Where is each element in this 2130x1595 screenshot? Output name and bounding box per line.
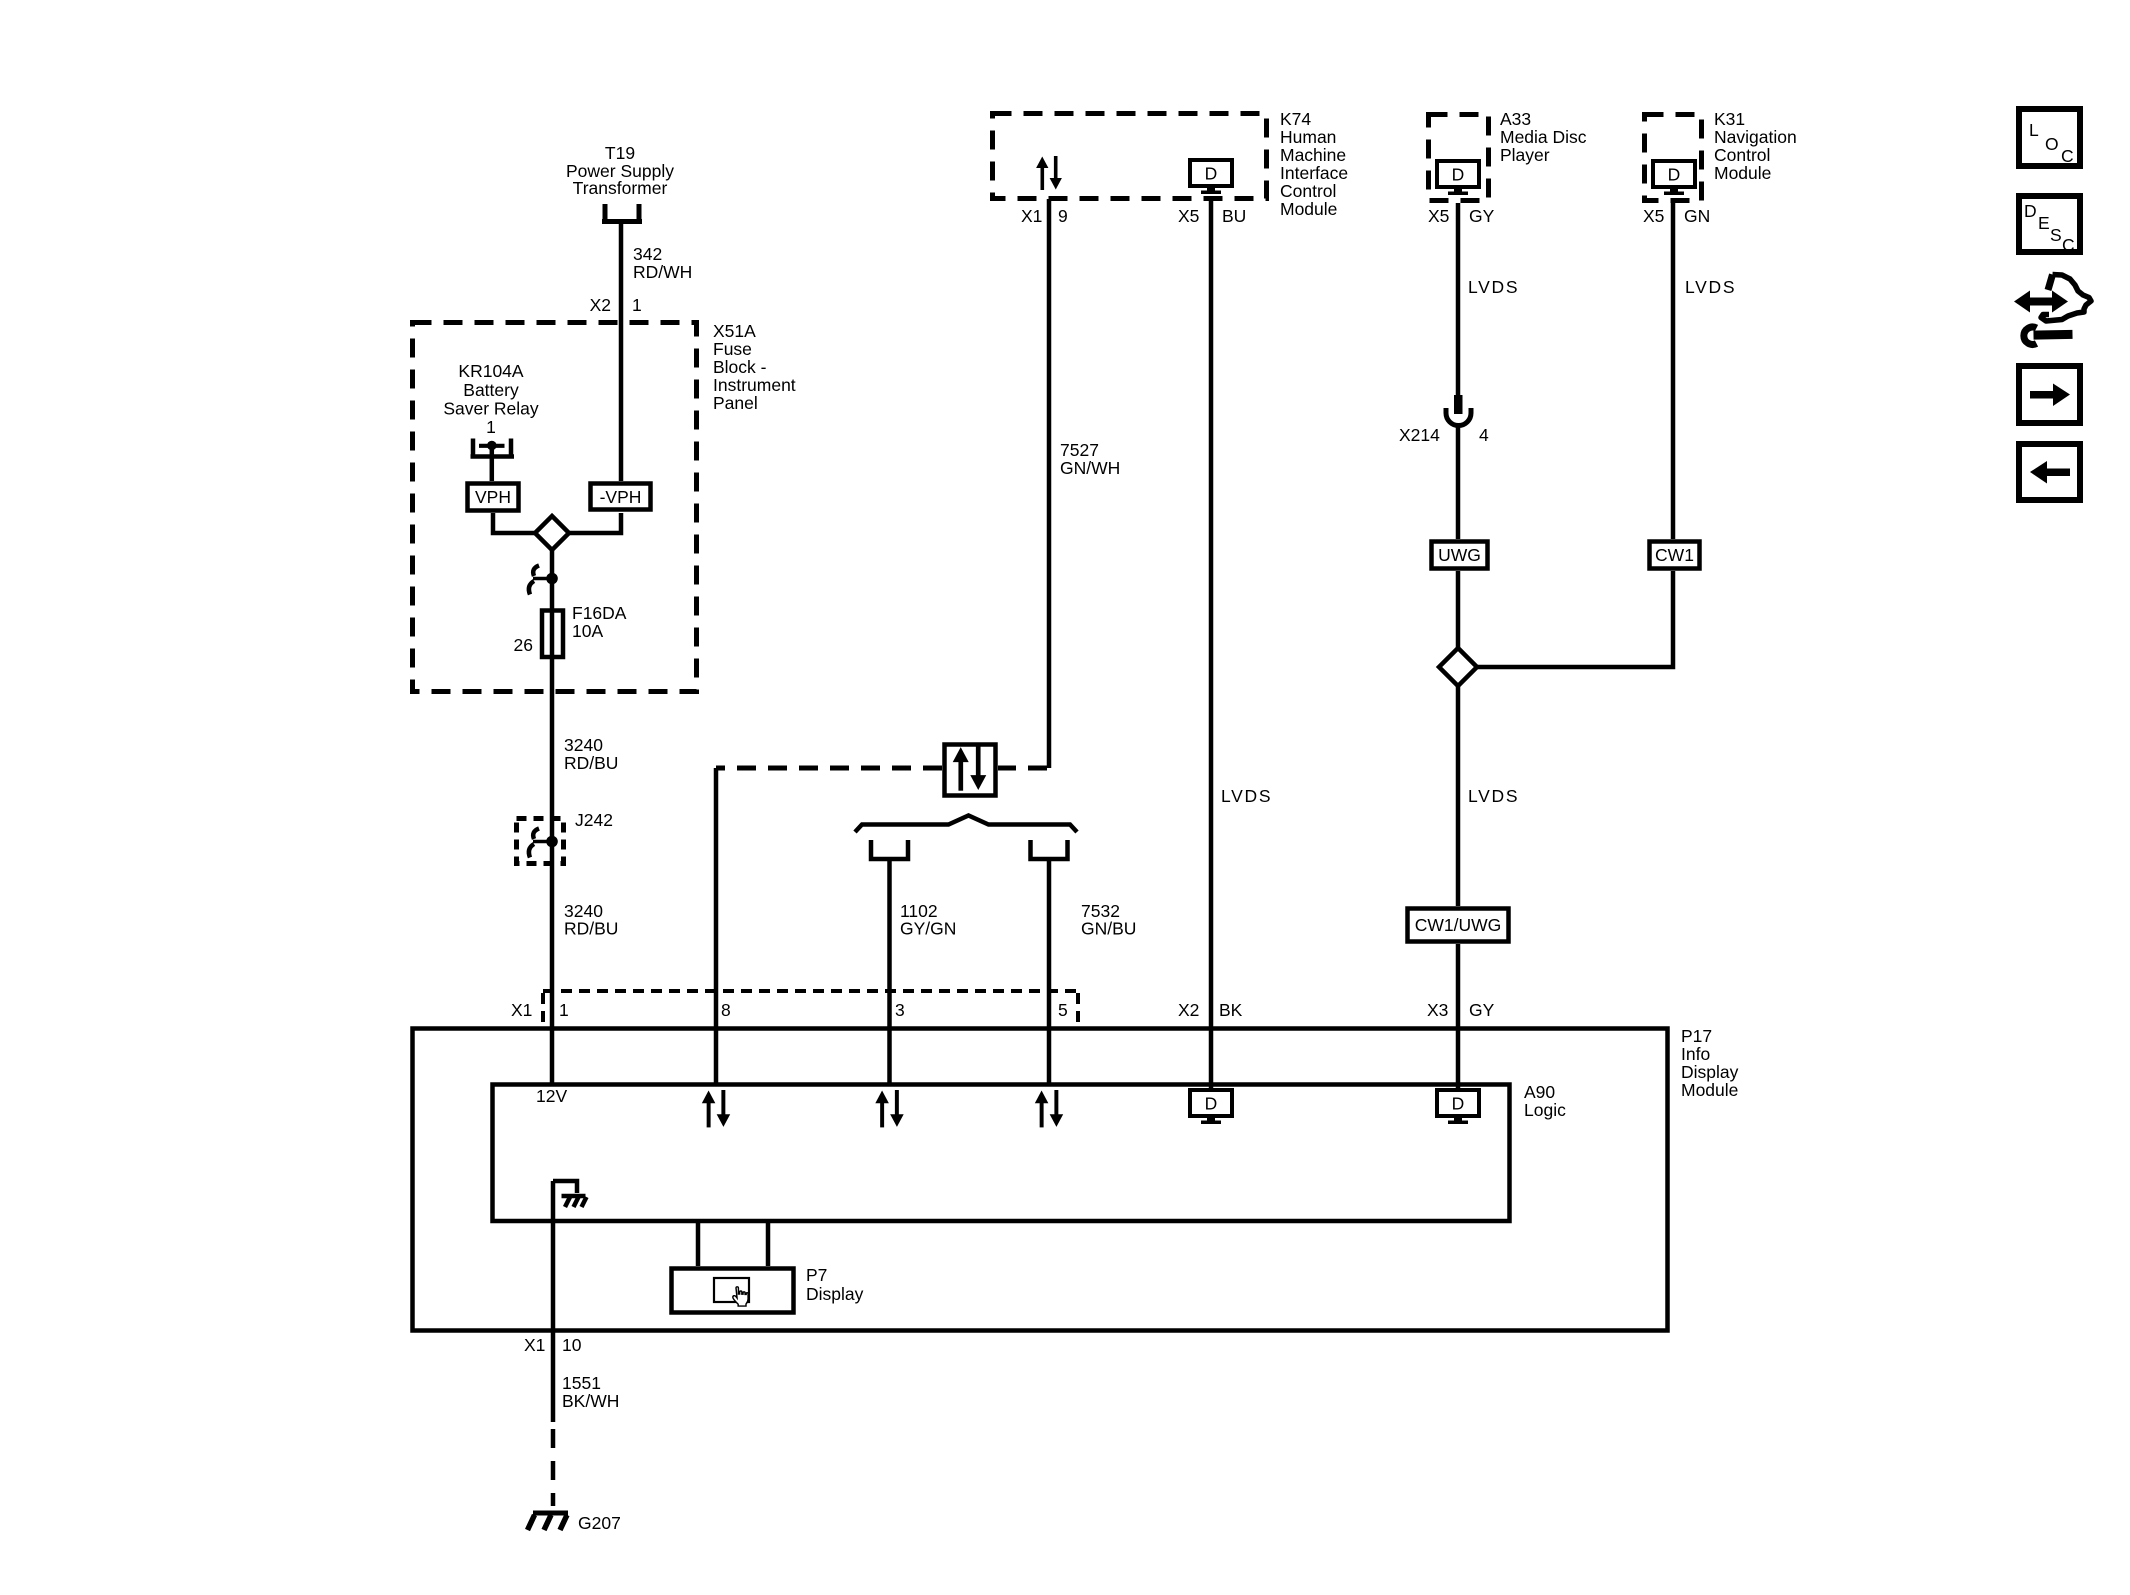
bidirectional arrows in K74	[1036, 156, 1062, 190]
pin X3 GY	[1427, 1000, 1495, 1020]
label P7 Display	[806, 1265, 864, 1304]
svg-text:GN/WH: GN/WH	[1060, 458, 1120, 478]
svg-text:10A: 10A	[572, 621, 603, 641]
svg-text:A90: A90	[1524, 1082, 1555, 1102]
ground wire 1551 dashed	[551, 1429, 556, 1506]
ground G207 symbol	[528, 1513, 569, 1530]
svg-text:10: 10	[562, 1335, 582, 1355]
svg-text:F16DA: F16DA	[572, 603, 627, 623]
wire 1102 GY/GN pin 3	[887, 859, 892, 1084]
svg-text:RD/BU: RD/BU	[564, 753, 618, 773]
display terminal D in K31	[1653, 161, 1695, 195]
svg-text:8: 8	[721, 1000, 731, 1020]
svg-text:LVDS: LVDS	[1221, 786, 1272, 806]
svg-text:7527: 7527	[1060, 440, 1099, 460]
svg-text:Saver Relay: Saver Relay	[443, 399, 539, 419]
svg-text:Control: Control	[1280, 181, 1336, 201]
svg-text:X1: X1	[511, 1000, 532, 1020]
svg-text:Control: Control	[1714, 145, 1770, 165]
svg-text:Display: Display	[1681, 1062, 1739, 1082]
pin X1 10	[524, 1335, 582, 1355]
pin X2 1 at fuse block	[590, 295, 642, 315]
svg-text:X51A: X51A	[713, 321, 756, 341]
svg-text:J242: J242	[575, 810, 613, 830]
wire diamond to CW1/UWG	[1456, 686, 1461, 906]
nav icon LOC	[2019, 109, 2080, 166]
wire VPH to splice diamond	[493, 513, 535, 533]
label X51A Fuse Block - Instrument Panel	[713, 321, 796, 413]
svg-text:Transformer: Transformer	[573, 178, 668, 198]
svg-text:Navigation: Navigation	[1714, 127, 1797, 147]
pin X5 GN of K31	[1643, 206, 1710, 226]
wire A33 X5 to X214	[1456, 203, 1461, 397]
svg-text:C: C	[2061, 146, 2074, 166]
label relay KR104A Battery Saver Relay pin 1	[443, 361, 539, 437]
svg-text:UWG: UWG	[1438, 545, 1481, 565]
svg-text:LVDS: LVDS	[1468, 277, 1519, 297]
svg-text:RD/WH: RD/WH	[633, 262, 692, 282]
svg-text:Module: Module	[1681, 1080, 1738, 1100]
display terminal D at X2 BK	[1190, 1090, 1232, 1124]
svg-text:Battery: Battery	[463, 380, 519, 400]
svg-text:X1: X1	[524, 1335, 545, 1355]
svg-text:G207: G207	[578, 1513, 621, 1533]
wire 7532 GN/BU pin 5	[1047, 859, 1052, 1084]
label K74 Human Machine Interface Control Module	[1280, 109, 1348, 219]
svg-text:Human: Human	[1280, 127, 1336, 147]
svg-text:BU: BU	[1222, 206, 1246, 226]
display terminal D in K74	[1190, 160, 1232, 194]
svg-text:X5: X5	[1178, 206, 1199, 226]
svg-text:1: 1	[559, 1000, 569, 1020]
svg-text:9: 9	[1058, 206, 1068, 226]
svg-text:Machine: Machine	[1280, 145, 1346, 165]
svg-text:Panel: Panel	[713, 393, 758, 413]
display P7 box	[672, 1269, 794, 1313]
svg-text:LVDS: LVDS	[1685, 277, 1736, 297]
svg-text:P17: P17	[1681, 1026, 1712, 1046]
svg-text:L: L	[2029, 120, 2039, 140]
wire X214 to UWG	[1456, 426, 1461, 540]
svg-text:4: 4	[1479, 425, 1489, 445]
pin X5 BU of K74	[1178, 206, 1246, 226]
svg-text:RD/BU: RD/BU	[564, 919, 618, 939]
nav icon repair instructions	[2014, 275, 2091, 345]
svg-text:1551: 1551	[562, 1373, 601, 1393]
svg-text:Info: Info	[1681, 1044, 1710, 1064]
svg-text:D: D	[2024, 201, 2037, 221]
pin X5 GY of A33	[1428, 206, 1495, 226]
P7 touch screen icon	[714, 1278, 749, 1306]
svg-text:VPH: VPH	[475, 487, 511, 507]
svg-text:GY/GN: GY/GN	[900, 919, 956, 939]
svg-text:26: 26	[514, 635, 533, 655]
display P7 stubs	[698, 1223, 768, 1266]
display terminal D at X3 GY	[1437, 1090, 1479, 1124]
wire LVDS from K74 X5 BU to A90	[1209, 199, 1214, 1090]
splice J242 hook symbol	[529, 829, 558, 858]
svg-text:BK/WH: BK/WH	[562, 1391, 619, 1411]
svg-text:342: 342	[633, 244, 662, 264]
svg-text:X2: X2	[590, 295, 611, 315]
svg-text:CW1/UWG: CW1/UWG	[1415, 915, 1502, 935]
connector X1 dotted outline	[543, 991, 1078, 1024]
module K31 dashed box	[1645, 115, 1702, 201]
bidirectional arrows pin 3	[875, 1090, 903, 1127]
nav icon DESC	[2019, 196, 2080, 255]
svg-text:X5: X5	[1428, 206, 1449, 226]
terminal UWG box	[1432, 542, 1488, 569]
pin X1 9 of K74	[1021, 206, 1068, 226]
svg-text:Module: Module	[1714, 163, 1771, 183]
bidirectional arrows box on dashed run	[945, 745, 996, 796]
svg-text:GN: GN	[1684, 206, 1710, 226]
svg-text:Display: Display	[806, 1284, 864, 1304]
svg-text:K74: K74	[1280, 109, 1311, 129]
winding bracket pin 3	[871, 840, 908, 859]
svg-text:LVDS: LVDS	[1468, 786, 1519, 806]
label 1551 BK/WH	[562, 1373, 619, 1411]
svg-text:X2: X2	[1178, 1000, 1199, 1020]
label 7532 GN/BU	[1081, 901, 1136, 939]
svg-text:BK: BK	[1219, 1000, 1243, 1020]
splice J242 dashed box	[517, 819, 564, 864]
svg-text:GN/BU: GN/BU	[1081, 919, 1136, 939]
svg-text:Interface: Interface	[1280, 163, 1348, 183]
svg-text:Module: Module	[1280, 199, 1337, 219]
svg-text:Instrument: Instrument	[713, 375, 796, 395]
label 3240 RD/BU upper	[564, 735, 618, 773]
svg-text:E: E	[2038, 213, 2050, 233]
fuse block X51A dashed box	[413, 323, 697, 692]
svg-text:-VPH: -VPH	[600, 487, 642, 507]
transformer T19 symbol	[602, 204, 642, 222]
svg-text:P7: P7	[806, 1265, 827, 1285]
svg-text:1: 1	[486, 417, 496, 437]
svg-text:1: 1	[632, 295, 642, 315]
relay KR104A coil symbol	[471, 439, 515, 482]
fuse F16DA 10A	[542, 611, 563, 658]
terminal -VPH box	[591, 484, 651, 510]
pin X2 BK	[1178, 1000, 1243, 1020]
wire UWG to splice diamond	[1456, 571, 1461, 648]
svg-text:X214: X214	[1399, 425, 1440, 445]
pin labels X1 1 8 3 5	[511, 1000, 1068, 1020]
bidirectional arrows pin 5	[1035, 1090, 1063, 1127]
wire pin 8 vertical	[714, 768, 719, 1084]
svg-text:O: O	[2045, 134, 2059, 154]
wire 342 RD/WH from T19 to X51A	[619, 222, 624, 481]
label 1102 GY/GN	[900, 901, 956, 939]
label 7527 GN/WH	[1060, 440, 1120, 478]
svg-text:C: C	[2062, 235, 2075, 255]
label A90 Logic	[1524, 1082, 1566, 1120]
svg-text:S: S	[2050, 225, 2062, 245]
winding bracket pin 5	[1031, 840, 1068, 859]
svg-text:X5: X5	[1643, 206, 1664, 226]
terminal VPH box	[468, 484, 519, 511]
terminal CW1 box	[1650, 542, 1700, 569]
display terminal D in A33	[1437, 161, 1479, 195]
terminal CW1/UWG box	[1408, 909, 1509, 942]
label 342 RD/WH	[633, 244, 692, 282]
svg-text:KR104A: KR104A	[458, 361, 524, 381]
svg-text:3240: 3240	[564, 735, 603, 755]
wire 7527 GN/WH from K74 X1-9	[1047, 199, 1052, 768]
module A33 dashed box	[1429, 115, 1489, 201]
svg-text:Fuse: Fuse	[713, 339, 752, 359]
transformer T19 label	[566, 143, 674, 198]
nav icon back arrow	[2019, 444, 2080, 500]
label K31 Navigation Control Module	[1714, 109, 1797, 183]
svg-text:K31: K31	[1714, 109, 1745, 129]
dashed wire 7527 GN/WH horizontal run	[716, 766, 1047, 771]
svg-text:X3: X3	[1427, 1000, 1448, 1020]
wire -VPH to splice diamond	[569, 513, 621, 533]
svg-text:Media Disc: Media Disc	[1500, 127, 1587, 147]
label A33 Media Disc Player	[1500, 109, 1587, 165]
connector X214 pin 4	[1446, 395, 1471, 426]
bidirectional arrows pin 8	[702, 1090, 730, 1127]
wire from diamond through fuse to X1 pin 1	[550, 550, 555, 1084]
internal ground symbol of A90	[553, 1181, 587, 1207]
svg-text:A33: A33	[1500, 109, 1531, 129]
wire CW1/UWG to X3 GY pin	[1456, 944, 1461, 1090]
harness brace over antenna pins	[855, 816, 1077, 833]
svg-text:GY: GY	[1469, 206, 1495, 226]
label 3240 RD/BU lower	[564, 901, 618, 939]
splice diamond in fuse block	[535, 516, 569, 550]
svg-text:5: 5	[1058, 1000, 1068, 1020]
svg-text:Logic: Logic	[1524, 1100, 1566, 1120]
module K74 dashed box	[993, 114, 1267, 199]
svg-text:3: 3	[895, 1000, 905, 1020]
module P17 Info Display Module box	[413, 1029, 1668, 1331]
svg-text:Player: Player	[1500, 145, 1550, 165]
svg-text:X1: X1	[1021, 206, 1042, 226]
label F16DA 10A	[572, 603, 627, 641]
svg-text:12V: 12V	[536, 1086, 567, 1106]
svg-text:Block -: Block -	[713, 357, 767, 377]
tap hook junction above fuse	[529, 566, 558, 595]
label P17 Info Display Module	[1681, 1026, 1739, 1100]
splice diamond right	[1439, 648, 1477, 686]
nav icon forward arrow	[2019, 366, 2080, 423]
svg-text:GY: GY	[1469, 1000, 1495, 1020]
wire CW1 to splice diamond	[1477, 571, 1673, 667]
label X214 4	[1399, 425, 1489, 445]
module A90 Logic box	[493, 1085, 1510, 1222]
svg-text:T19: T19	[605, 143, 635, 163]
wire K31 X5 to CW1	[1671, 203, 1676, 539]
svg-text:CW1: CW1	[1655, 545, 1694, 565]
ground wire 1551 solid	[551, 1181, 556, 1422]
